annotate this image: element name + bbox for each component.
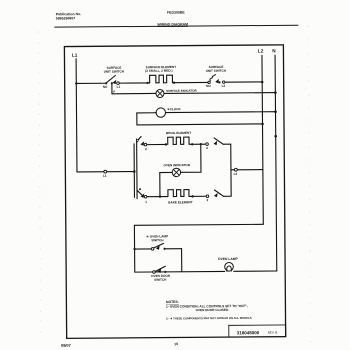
wire bake out right then up [223, 170, 231, 196]
lamp/indicator symbols [155, 89, 234, 272]
oven door switch row / bottom wire to lamp [135, 270, 225, 273]
wire surface element to switch S2 [174, 81, 208, 83]
junction element right [173, 81, 175, 83]
junction S2 pivot [218, 81, 220, 83]
switch movable arms with arrows [107, 74, 220, 272]
svg-text:FED300BE: FED300BE [167, 11, 185, 15]
junction L1/row1 [75, 82, 77, 84]
oven lamp switch branch wire [135, 248, 152, 250]
L1 feed to oven section [77, 171, 134, 173]
junction indicator/N [274, 91, 277, 94]
svg-text:4: 4 [206, 146, 208, 150]
contact S1 L1 [117, 82, 120, 85]
svg-text:2 - ∗ THESE COMPONENTS MAY NOT: 2 - ∗ THESE COMPONENTS MAY NOT APPEAR ON… [166, 316, 252, 321]
surface element E1 [150, 75, 174, 83]
broil thermostat arm [214, 138, 223, 144]
oven lamp [225, 262, 234, 271]
header texts [56, 10, 191, 347]
svg-text:SWITCH: SWITCH [154, 278, 167, 282]
wire surface indicator to N [164, 92, 275, 95]
broil element [168, 137, 189, 144]
svg-text:NO: NO [103, 85, 108, 89]
wire broil switch to broil element [147, 143, 166, 145]
svg-text:3: 3 [206, 198, 208, 202]
bake thermostat arm [215, 190, 224, 196]
oven door switch arm [156, 266, 165, 271]
oven mid feed to L2 [231, 169, 263, 171]
svg-text:SWITCH: SWITCH [151, 238, 164, 242]
arrow lamp switch [157, 247, 159, 250]
pivot lamp switch right [163, 248, 165, 250]
edge registration dots right [307, 25, 311, 343]
part number box [229, 325, 286, 337]
junction element left [146, 82, 148, 84]
contact S2 L2 [222, 81, 224, 83]
wire to surface indicator [112, 92, 156, 94]
circuit labels [72, 48, 278, 282]
clock branch vertical [136, 113, 138, 125]
pivot bake switch rail [139, 188, 141, 190]
junction broil/indicator [200, 143, 202, 145]
wire broil out right then down [223, 144, 231, 170]
svg-text:UNIT SWITCH: UNIT SWITCH [206, 69, 227, 73]
svg-text:(2 SMALL, 2 MED.): (2 SMALL, 2 MED.) [145, 69, 172, 73]
contact S2 NO [208, 81, 210, 83]
svg-text:10: 10 [174, 342, 178, 346]
svg-text:L1: L1 [117, 85, 121, 89]
oven indicator lamp [172, 168, 180, 176]
node N rail [275, 55, 277, 271]
connector L2 plug [234, 168, 237, 171]
svg-text:OVEN LAMP: OVEN LAMP [218, 257, 238, 261]
junction bake element right [191, 195, 193, 197]
pivot door switch right [164, 271, 166, 273]
arrow door switch [158, 270, 160, 273]
svg-text:L2: L2 [234, 172, 238, 176]
arrow bake thermostat [215, 194, 217, 197]
broil switch arm [137, 137, 142, 143]
wire L1 to surface unit switch S1 [76, 82, 106, 84]
oven indicator left wire [160, 172, 173, 196]
contact door switch in [153, 271, 156, 274]
svg-text:L2: L2 [258, 48, 264, 53]
lamp switch join vertical [181, 249, 183, 272]
svg-text:5995296957: 5995296957 [56, 16, 76, 20]
svg-text:09/07: 09/07 [61, 343, 72, 348]
svg-text:2: 2 [145, 147, 147, 151]
oven indicator right wire [180, 144, 201, 172]
header rule [55, 25, 298, 27]
svg-text:F: F [113, 90, 115, 94]
junction row1/L2 [261, 81, 264, 84]
junction lamp switch branch [133, 248, 135, 250]
svg-text:WIRING DIAGRAM: WIRING DIAGRAM [157, 22, 188, 26]
junction broil element left [165, 143, 167, 145]
terminal dot on N [274, 135, 277, 138]
wire bake switch to bake element [147, 196, 168, 198]
diagram border box [64, 45, 285, 339]
bake element [168, 190, 189, 197]
svg-text:318045000: 318045000 [237, 330, 260, 335]
wire S1 to surface element [119, 82, 150, 84]
arrow broil switch [141, 143, 143, 146]
svg-text:L2: L2 [222, 84, 226, 88]
arm S2 [210, 74, 216, 81]
svg-text:L1: L1 [103, 174, 107, 178]
contact bake switch out [144, 195, 147, 198]
contact bake thermostat [206, 195, 209, 198]
arm S1 [107, 75, 116, 82]
contact broil switch out [144, 143, 147, 146]
bake switch arm [137, 190, 143, 196]
wire lamp switch out [165, 248, 182, 250]
svg-text:BROIL ELEMENT: BROIL ELEMENT [166, 131, 191, 135]
arrow broil thermostat [214, 142, 216, 145]
junction L1 feed / rail [133, 170, 136, 173]
oven switch rail line a [133, 144, 135, 197]
arrow bake switch [141, 195, 143, 198]
svg-text:L1: L1 [72, 53, 78, 58]
wire clock loop to L2 [137, 123, 263, 126]
wire lamp to N [234, 270, 277, 272]
L2 drop to oven lamp circuit [134, 224, 263, 272]
contact broil thermostat [206, 143, 209, 146]
junction S1 pivot [105, 82, 107, 84]
wire S2 to L2 [225, 81, 262, 83]
open contacts [103, 81, 238, 274]
junction S1 branch [111, 82, 113, 84]
svg-text:OVEN DOOR CLOSED.: OVEN DOOR CLOSED. [196, 308, 230, 312]
connector L1 plug [104, 170, 107, 173]
edge registration dots left [38, 31, 42, 333]
wire clock to N [166, 111, 276, 114]
svg-text:UNIT SWITCH: UNIT SWITCH [104, 69, 125, 73]
svg-text:REV. B: REV. B [268, 331, 278, 335]
junction broil element right [191, 143, 193, 145]
svg-text:NO: NO [206, 84, 211, 88]
oven switch rail line b [136, 139, 138, 199]
junction clock/N [274, 110, 277, 113]
junction bake/indicator [159, 195, 161, 197]
svg-text:BAKE ELEMENT: BAKE ELEMENT [168, 200, 193, 204]
svg-text:SURFACE INDICATOR: SURFACE INDICATOR [166, 89, 197, 93]
svg-text:NOTES:: NOTES: [166, 300, 179, 304]
svg-text:1: 1 [145, 200, 147, 204]
wire to clock [137, 112, 156, 114]
svg-text:OVEN INDICATOR: OVEN INDICATOR [164, 163, 191, 167]
wire broil element to broil thermostat switch [189, 143, 206, 145]
node L1 rail [75, 59, 78, 172]
surface indicator lamp [156, 89, 164, 97]
svg-text:∗CLOCK: ∗CLOCK [167, 107, 181, 111]
wire bake element to bake thermostat switch [189, 195, 206, 197]
junction clock loop/L2 [261, 123, 264, 126]
notes block [166, 299, 252, 320]
clock motor [156, 108, 165, 117]
branch F from S1 down to surface indicator row [111, 83, 113, 94]
oven lamp switch arm [154, 243, 164, 247]
contact lamp switch in [151, 248, 154, 251]
node L2 rail [262, 55, 263, 224]
